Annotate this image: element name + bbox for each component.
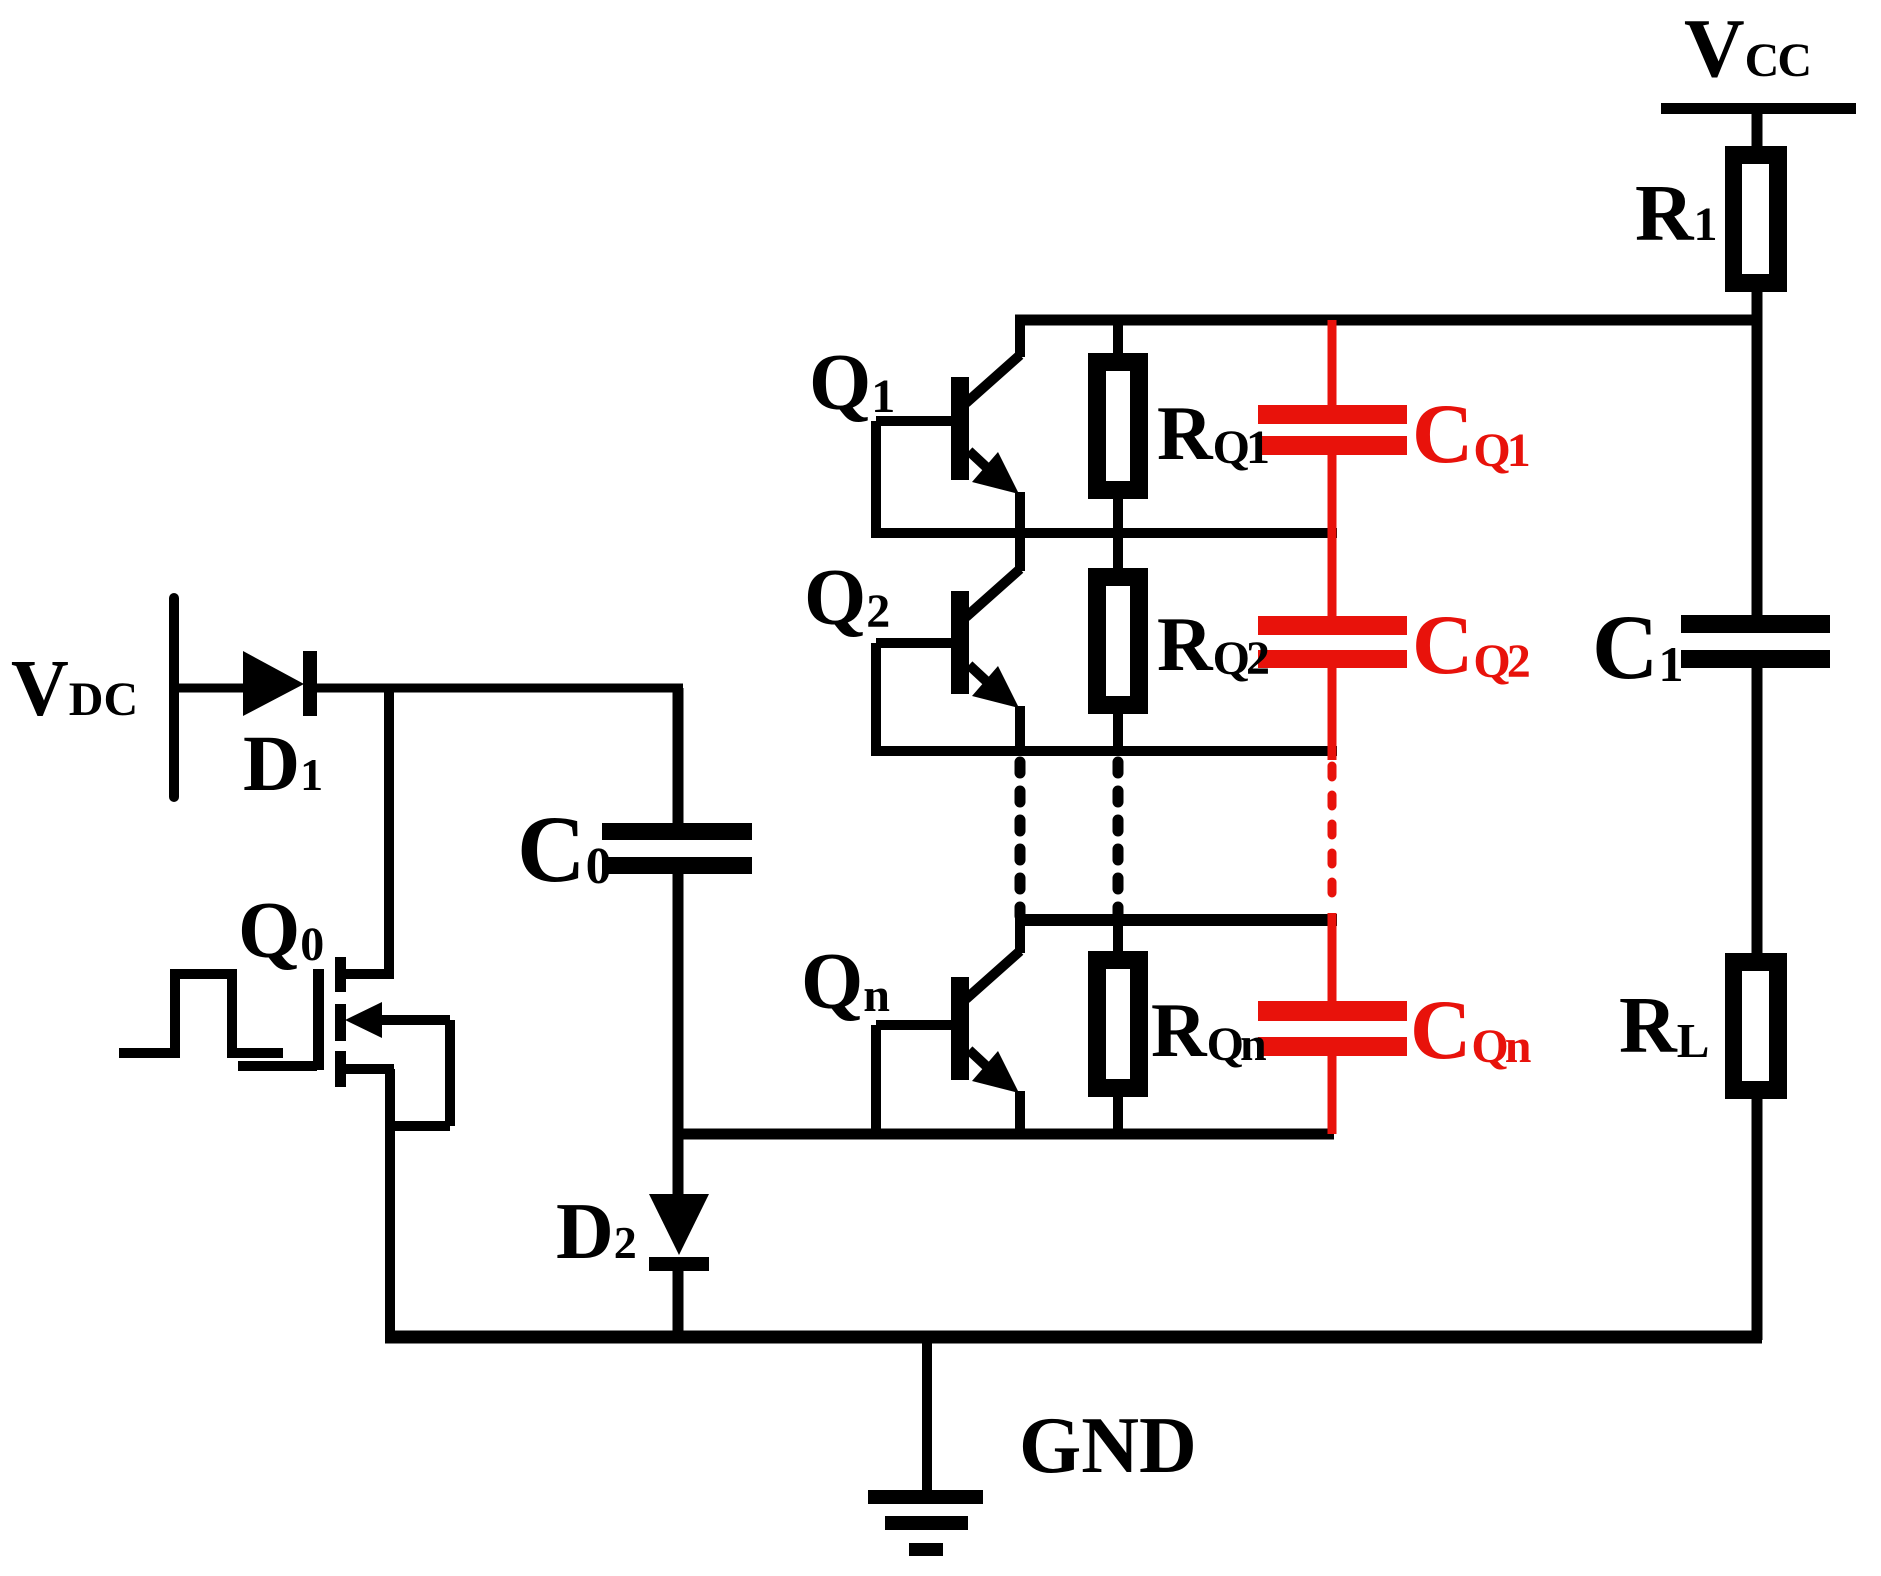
svg-text:GND: GND — [1019, 1402, 1197, 1490]
